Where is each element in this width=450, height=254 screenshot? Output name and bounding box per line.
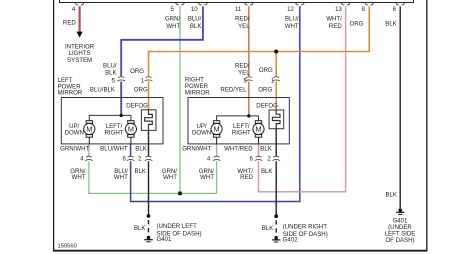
- wire GRN/WHT right mirror leg: [216, 144, 218, 156]
- svg-text:BLK: BLK: [134, 225, 146, 232]
- svg-text:M: M: [128, 125, 134, 134]
- svg-text:BLU/: BLU/: [188, 15, 202, 22]
- ground G402 (under right side of dash): [272, 236, 280, 242]
- connector pin 2 (right BLK): [272, 156, 280, 160]
- svg-text:10: 10: [191, 7, 198, 13]
- labels: top wire colours: [63, 15, 397, 30]
- svg-text:DEFOG: DEFOG: [256, 102, 278, 109]
- wire BLU/WHT (pin 12 to left mirror): [131, 6, 300, 201]
- pin 8 terminal: [365, 3, 374, 5]
- svg-text:M: M: [214, 125, 220, 134]
- svg-text:RIGHT: RIGHT: [232, 129, 251, 136]
- wire GRN/WHT (pin 5 to green splice): [179, 6, 181, 193]
- svg-text:OF DASH): OF DASH): [385, 237, 414, 244]
- labels motors right mirror: [192, 123, 251, 136]
- wire BLU/BLK (pin 10 to left mirror): [121, 6, 203, 76]
- svg-text:BLK: BLK: [385, 192, 397, 199]
- node green splice: [178, 192, 182, 196]
- labels at right mirror in-line connectors: [220, 63, 273, 94]
- node blue junction left: [120, 114, 123, 117]
- connector pin 5 (RED/YEL in-line): [245, 77, 253, 81]
- svg-text:BLK: BLK: [105, 69, 117, 76]
- svg-text:ORG: ORG: [130, 68, 144, 75]
- connector (top, cut off at edge): [60, 0, 414, 3]
- svg-text:BLK: BLK: [190, 23, 202, 30]
- svg-text:RED/YEL: RED/YEL: [220, 87, 247, 94]
- pin 6 terminal: [396, 3, 405, 5]
- svg-text:M: M: [255, 125, 261, 134]
- connector pin 1 (ORG left in-line): [145, 77, 153, 81]
- wire RED (pin 4 to interior lights system): [78, 6, 80, 32]
- wire WHT/RED (pin 13 to right mirror): [259, 6, 346, 192]
- node red/yel junction right: [247, 114, 250, 117]
- svg-text:13: 13: [335, 7, 342, 13]
- labels at left mirror in-line connectors: [90, 63, 148, 94]
- defogger element (left mirror): [141, 110, 156, 131]
- labels: top pin numbers: [72, 7, 397, 13]
- pin 10 terminal: [199, 3, 208, 5]
- svg-text:YEL: YEL: [238, 23, 250, 30]
- svg-text:WHT: WHT: [114, 174, 128, 181]
- svg-text:ORG: ORG: [350, 21, 364, 28]
- svg-text:WHT/RED: WHT/RED: [224, 145, 253, 152]
- svg-text:BLK: BLK: [261, 168, 273, 175]
- svg-text:ORG: ORG: [134, 87, 148, 94]
- svg-text:RED: RED: [240, 174, 253, 181]
- label left power mirror: [58, 77, 83, 96]
- svg-text:MIRROR: MIRROR: [58, 89, 83, 96]
- svg-text:DEFOG: DEFOG: [126, 102, 148, 109]
- svg-text:GRN/: GRN/: [165, 15, 181, 22]
- svg-text:BLU/: BLU/: [285, 15, 299, 22]
- connector pin 6 (left BLU/WHT): [127, 156, 135, 160]
- node splice left ground: [147, 214, 151, 218]
- wire BLK dashed to G401: [148, 220, 150, 235]
- wire BLK (pin 6 to ground G401 right): [399, 6, 401, 208]
- svg-text:GRN/WHT: GRN/WHT: [60, 145, 89, 152]
- svg-text:(UNDER LEFT: (UNDER LEFT: [157, 223, 198, 230]
- svg-text:BLK: BLK: [134, 168, 146, 175]
- wire BLK dashed to G402: [275, 220, 277, 235]
- right power mirror box: [188, 98, 289, 144]
- svg-text:MIRROR: MIRROR: [185, 89, 210, 96]
- svg-text:YEL: YEL: [238, 69, 250, 76]
- motor M up/down (left mirror): [84, 121, 95, 144]
- svg-text:DOWN: DOWN: [65, 129, 84, 136]
- labels below mirror boxes row 1: [60, 145, 272, 152]
- node orange junction: [274, 50, 278, 54]
- defogger element (right mirror): [269, 110, 284, 129]
- pin 12 terminal: [296, 3, 305, 5]
- svg-text:SYSTEM: SYSTEM: [67, 57, 92, 64]
- svg-text:BLK: BLK: [135, 145, 147, 152]
- wire BLK right mirror defogger to ground G402: [275, 129, 277, 156]
- wire ORG (pin 8 bus to both mirror defoggers): [149, 6, 370, 76]
- node splice right ground: [274, 214, 278, 218]
- svg-text:WHT/: WHT/: [326, 15, 342, 22]
- labels below connectors row 2: [70, 168, 272, 181]
- svg-text:DOWN: DOWN: [192, 129, 211, 136]
- left power mirror box: [61, 98, 163, 144]
- connector pin 2 (left BLK): [145, 156, 153, 160]
- wire GRN/WHT left mirror leg and bus: [88, 144, 90, 156]
- svg-text:RIGHT: RIGHT: [105, 129, 124, 136]
- svg-text:G402: G402: [283, 237, 299, 244]
- wire ORG branch to right mirror: [275, 52, 277, 77]
- connector pin 1 (ORG right in-line): [272, 77, 280, 81]
- svg-text:ORG: ORG: [259, 67, 273, 74]
- svg-text:11: 11: [235, 7, 242, 13]
- label interior lights system: [65, 43, 95, 64]
- svg-text:(UNDER RIGHT: (UNDER RIGHT: [283, 224, 328, 231]
- connector pin 6 (right WHT/RED): [255, 156, 263, 160]
- svg-text:RED: RED: [329, 23, 342, 30]
- label right power mirror: [185, 77, 210, 97]
- pin 4 terminal: [75, 3, 84, 5]
- svg-text:BLK: BLK: [385, 21, 397, 28]
- svg-text:G401: G401: [157, 236, 173, 243]
- pin 11 terminal: [245, 3, 254, 5]
- svg-text:ORG: ORG: [258, 87, 272, 94]
- wire RED/YEL (pin 11 to right mirror): [248, 6, 250, 76]
- svg-text:WHT: WHT: [285, 23, 299, 30]
- svg-text:150560: 150560: [58, 244, 77, 250]
- pin 5 terminal: [176, 3, 185, 5]
- svg-text:RED: RED: [63, 19, 76, 26]
- svg-text:WHT: WHT: [166, 23, 180, 30]
- labels pin numbers below boxes: [80, 157, 271, 163]
- svg-text:M: M: [86, 125, 92, 134]
- svg-text:WHT: WHT: [163, 174, 177, 181]
- connector pin 5 (BLU/BLK in-line): [117, 77, 125, 81]
- svg-text:WHT: WHT: [72, 174, 86, 181]
- svg-text:GRN/WHT: GRN/WHT: [182, 145, 211, 152]
- right mirror internal wire: [217, 116, 259, 121]
- ground G401 (far right): [396, 208, 404, 214]
- left mirror internal wire: [89, 115, 131, 120]
- svg-text:BLU/WHT: BLU/WHT: [100, 145, 128, 152]
- ground G401 (under left side of dash): [144, 236, 152, 242]
- connector pin 4 (right GRN/WHT): [213, 156, 221, 160]
- motor M left/right (left mirror): [125, 121, 136, 144]
- wire BLK left mirror defogger to ground G401: [148, 130, 150, 156]
- arrow to interior lights system: [76, 32, 82, 38]
- labels motors left mirror: [65, 123, 124, 136]
- svg-text:BLK: BLK: [262, 225, 274, 232]
- motor M left/right (right mirror): [253, 121, 264, 144]
- svg-text:BLU/BLK: BLU/BLK: [90, 87, 115, 94]
- connector pin 4 (left GRN/WHT): [85, 156, 93, 160]
- svg-text:BLK: BLK: [260, 145, 272, 152]
- pin 13 terminal: [341, 3, 350, 5]
- svg-text:RED/: RED/: [235, 15, 250, 22]
- motor M up/down (right mirror): [211, 121, 222, 144]
- svg-text:12: 12: [287, 7, 294, 13]
- svg-text:WHT: WHT: [200, 174, 214, 181]
